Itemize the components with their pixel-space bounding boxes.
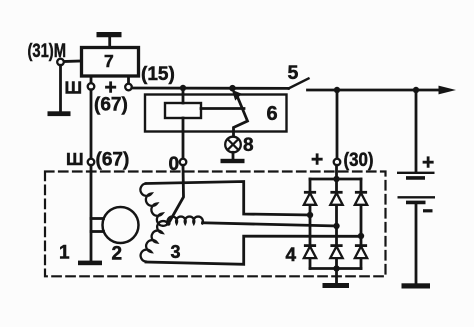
junction star point	[166, 221, 171, 226]
svg-text:(15): (15)	[141, 64, 175, 85]
svg-text:6: 6	[267, 103, 278, 125]
wire junction to coil top	[182, 88, 185, 103]
wire terminal 30 to rectifier bus	[335, 165, 338, 179]
diode VD2 top col2	[330, 192, 342, 205]
ground bar rotor	[78, 261, 102, 266]
terminal M (31)	[57, 59, 64, 66]
svg-text:+: +	[311, 148, 323, 171]
pin stub Sh of regulator	[90, 76, 93, 83]
junction minus bus	[333, 265, 339, 271]
battery cell 2 long plate	[398, 196, 436, 198]
svg-text:Ш: Ш	[65, 78, 83, 98]
wire down to terminal 30	[336, 90, 339, 159]
wire battery to ground	[415, 202, 418, 283]
diode VD6 bottom col3	[355, 246, 367, 259]
battery minus sign	[423, 209, 433, 212]
pin stub plus of regulator	[127, 76, 130, 84]
svg-text:(31)М: (31)М	[28, 41, 67, 62]
terminal Sh upper	[88, 83, 95, 90]
ground bar lamp	[221, 159, 245, 163]
wire terminal 0 to star point	[169, 165, 184, 223]
wire lower brush to ground	[90, 219, 93, 261]
rectifier plus bus	[310, 178, 361, 181]
voltage regulator U7 box	[82, 48, 139, 77]
stator winding phase C coil	[138, 219, 168, 262]
battery GB cell 1 long plate	[397, 172, 435, 174]
wire phase C to rectifier	[146, 236, 361, 264]
terminal 0 (stator mid point)	[180, 159, 187, 166]
wire net 15 horizontal	[132, 87, 289, 90]
junction on net 15 to relay coil	[180, 85, 186, 91]
svg-text:5: 5	[288, 62, 299, 84]
wire coil bottom to terminal 0	[182, 118, 185, 159]
indicator relay box 6	[145, 95, 287, 132]
rectifier column 3 wire	[360, 179, 363, 269]
relay contact armature	[232, 90, 248, 137]
terminal plus (30)	[334, 159, 341, 166]
rotor slip rings circle 2	[103, 207, 139, 243]
wire lamp to ground	[232, 152, 235, 159]
svg-text:7: 7	[104, 51, 114, 71]
junction phase A col1	[307, 212, 313, 218]
terminal Sh lower (67)	[88, 159, 95, 166]
junction phase B col2	[333, 223, 339, 229]
stator winding phase A coil	[138, 183, 168, 228]
diode VD1 top col1	[304, 192, 316, 205]
alternator dashed enclosure	[45, 172, 386, 277]
svg-text:(67): (67)	[96, 150, 130, 171]
junction phase C col3	[358, 233, 364, 239]
diode VD5 bottom col2	[330, 246, 342, 259]
svg-text:3: 3	[171, 242, 181, 262]
svg-text:1: 1	[59, 243, 70, 264]
diode VD4 bottom col1	[304, 246, 316, 259]
ground bar rectifier	[323, 283, 350, 288]
rectifier column 1 wire	[309, 179, 312, 269]
arrow to loads	[439, 86, 457, 95]
wire phase A to rectifier	[146, 182, 310, 216]
wire phase B to rectifier	[203, 223, 337, 226]
lamp cross	[228, 139, 239, 150]
wire minus bus to ground	[335, 269, 338, 284]
diode VD3 top col3	[355, 192, 367, 205]
wire coil to fixed contact	[201, 107, 244, 110]
svg-text:2: 2	[112, 244, 123, 265]
wire Sh down	[90, 90, 93, 159]
relay coil K6	[165, 103, 201, 118]
rectifier column 2 wire	[335, 179, 338, 269]
wire Sh into alternator brush	[90, 165, 93, 218]
junction to battery	[413, 87, 419, 93]
rectifier minus bus	[310, 267, 361, 270]
svg-text:0: 0	[169, 154, 180, 175]
ground bar battery	[402, 283, 431, 288]
battery cell 2 short plate	[406, 201, 426, 205]
svg-text:+: +	[422, 151, 434, 174]
indicator lamp HL8	[225, 137, 241, 153]
junction on net 15 to relay contact	[229, 85, 236, 92]
svg-text:8: 8	[243, 135, 254, 156]
brush lower wire	[91, 230, 104, 233]
ground bar (31)M	[48, 111, 71, 116]
wire battery top	[415, 90, 418, 172]
wire terminal M down to ground	[59, 65, 62, 111]
svg-text:(67): (67)	[94, 95, 128, 116]
svg-text:4: 4	[286, 245, 297, 266]
switch S5 blade	[289, 79, 309, 89]
terminal plus (15)	[125, 84, 132, 91]
wire regulator left to terminal M	[64, 60, 82, 63]
svg-text:Ш: Ш	[66, 149, 84, 169]
battery cell 1 short plate	[406, 176, 425, 180]
svg-text:(30): (30)	[344, 150, 374, 171]
junction plus bus	[333, 176, 339, 182]
junction to terminal 30	[334, 87, 340, 93]
stator winding phase B coil	[168, 217, 203, 224]
wire net 30 top horizontal	[308, 89, 441, 92]
chassis ground on top of regulator 7	[97, 35, 122, 48]
brush upper wire	[91, 217, 104, 220]
